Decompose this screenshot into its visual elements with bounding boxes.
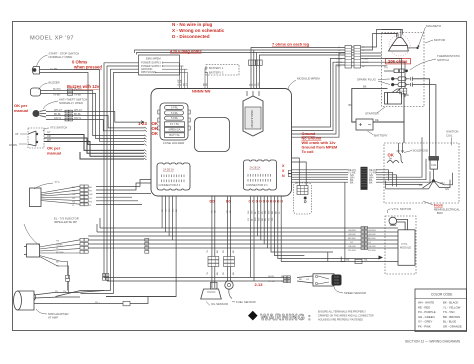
speed sensor SS1: [297, 274, 334, 286]
start-stop switch S1: [32, 67, 39, 75]
svg-text:MODULE MPEM: MODULE MPEM: [297, 77, 320, 81]
red X marks on MPEM right: [282, 164, 285, 178]
red 206 ohms note: [386, 59, 411, 64]
red ground notes: [302, 132, 338, 154]
svg-text:WH-GY: WH-GY: [74, 109, 83, 112]
svg-text:BL: BL: [255, 211, 257, 214]
magneto bundle to connector: [352, 30, 406, 72]
svg-text:RE: RE: [272, 210, 274, 214]
svg-text:DOWN: DOWN: [9, 144, 17, 147]
svg-text:WH: WH: [47, 139, 51, 142]
magneto M1: [388, 35, 410, 56]
svg-text:when pressed: when pressed: [73, 65, 102, 70]
svg-text:SPEED SENSOR: SPEED SENSOR: [344, 291, 366, 295]
svg-text:BK: BK: [233, 272, 235, 275]
svg-text:GY: GY: [89, 198, 93, 200]
svg-text:GR - GREEN: GR - GREEN: [418, 315, 435, 319]
label ignition coil: [446, 130, 458, 138]
svg-text:GN: GN: [258, 217, 260, 221]
svg-text:BK: BK: [338, 66, 341, 68]
svg-text:BK - BLACK: BK - BLACK: [443, 301, 459, 305]
leader spark plugs: [378, 79, 390, 85]
cable battery to starter: [352, 88, 404, 143]
solenoid feed wires: [402, 71, 406, 98]
svg-text:OIL SENSOR: OIL SENSOR: [211, 302, 228, 306]
svg-text:BK: BK: [350, 180, 354, 184]
svg-text:BK: BK: [349, 103, 353, 107]
svg-text:CRIMPED ON THE WIRES AND ALL C: CRIMPED ON THE WIRES AND ALL CONNECTOR: [318, 315, 374, 318]
svg-text:VTS SWITCH: VTS SWITCH: [50, 126, 67, 130]
svg-text:PU: PU: [55, 291, 58, 293]
spark plug P2: [391, 82, 412, 86]
svg-text:GY: GY: [306, 279, 310, 281]
rotated labels under connector 1: [248, 210, 281, 214]
warning paragraph: [318, 311, 374, 322]
label start-stop switch: [49, 52, 80, 60]
label front electrical box: [434, 204, 460, 215]
starter MOT: [385, 89, 402, 104]
svg-text:PU: PU: [262, 211, 264, 214]
label anti-theft switch: [59, 98, 87, 106]
svg-text:YL-RE: YL-RE: [178, 79, 180, 86]
svg-text:PU: PU: [56, 266, 59, 268]
svg-text:PU-TN: PU-TN: [74, 88, 82, 91]
front box connector dashed: [294, 183, 312, 214]
svg-text:TN: TN: [56, 241, 59, 243]
inline connector pair buzzer: [68, 89, 73, 95]
oil level sensor (funnel): [201, 282, 222, 299]
svg-text:YL: YL: [279, 211, 281, 214]
svg-text:COIL: COIL: [446, 133, 453, 137]
svg-text:BK-BL: BK-BL: [54, 113, 62, 116]
svg-text:OR-GN: OR-GN: [348, 246, 356, 248]
svg-text:TN: TN: [72, 201, 75, 203]
svg-text:BK-RE: BK-RE: [336, 62, 343, 64]
svg-text:PU: PU: [89, 191, 92, 193]
connector column J3 pairs: [80, 185, 88, 206]
svg-text:“X” L: “X” L: [54, 180, 61, 184]
anti-theft wires: [46, 112, 145, 131]
svg-text:BK: BK: [419, 183, 423, 187]
row end hooks: [144, 127, 147, 160]
connector #1 block J1: [244, 160, 277, 190]
red OK per manual 1: [14, 103, 28, 113]
svg-text:WH: WH: [255, 217, 257, 221]
svg-text:FUEL SENSOR: FUEL SENSOR: [236, 300, 256, 304]
svg-text:BL - BLUE: BL - BLUE: [443, 320, 456, 324]
svg-text:GY: GY: [350, 242, 354, 244]
extra harness row 2: [80, 152, 144, 159]
oil sender columns: [212, 197, 231, 257]
inline connector near front box: [288, 171, 291, 177]
svg-text:WH: WH: [269, 210, 271, 214]
wires J4 lower to adapter row: [68, 281, 69, 293]
svg-text:GN-YL: GN-YL: [54, 117, 62, 120]
svg-text:BK: BK: [217, 250, 219, 253]
svg-text:NNNN NN: NNNN NN: [192, 88, 211, 93]
svg-text:PK: PK: [223, 250, 225, 253]
left vertical risers from EMS box: [97, 63, 139, 294]
svg-text:GN: GN: [72, 194, 76, 196]
thermostatic switch TS1: [384, 69, 408, 73]
svg-text:5#: 5#: [389, 158, 392, 161]
MPEM module U1: [151, 89, 292, 197]
wire to magneto apex: [382, 30, 401, 37]
svg-text:BATT 5A: BATT 5A: [169, 133, 180, 137]
inline connectors anti-theft: [65, 110, 72, 121]
svg-text:OR: OR: [265, 210, 267, 214]
anti-theft key switch S2: [33, 110, 46, 117]
svg-text:MOTOR: MOTOR: [434, 38, 446, 42]
svg-text:GN: GN: [89, 194, 93, 196]
leader thermostatic: [410, 59, 436, 70]
second bundle from MPEM right: [292, 53, 346, 137]
svg-text:BK-WH: BK-WH: [348, 238, 356, 240]
EMS power supply box: [139, 55, 180, 75]
svg-text:BK-BL: BK-BL: [74, 113, 82, 116]
svg-text:MODULE: MODULE: [400, 246, 411, 250]
svg-text:BK-WH: BK-WH: [368, 238, 376, 240]
svg-text:SOLENOID: SOLENOID: [413, 149, 429, 153]
oil level sensor connector J4: [24, 244, 40, 257]
svg-text:TN: TN: [207, 272, 209, 275]
black arrow into module: [379, 256, 384, 260]
svg-text:manual: manual: [47, 151, 61, 156]
label thermostatic switch: [437, 54, 461, 62]
solenoid K1: [387, 143, 403, 163]
fuse F5: [165, 127, 185, 132]
svg-text:GY 2B: GY 2B: [268, 281, 275, 283]
fuse F4: [165, 122, 185, 127]
svg-text:HOUSINGS ARE PROPERLY FASTENED: HOUSINGS ARE PROPERLY FASTENED: [318, 319, 363, 322]
svg-text:GN: GN: [248, 210, 250, 214]
inline connector grid oil: [208, 257, 234, 267]
svg-text:D - Disconnected: D - Disconnected: [172, 34, 210, 39]
label oil fuel injection: [54, 217, 79, 225]
svg-text:TN-BK: TN-BK: [74, 93, 82, 96]
svg-text:X: X: [282, 164, 285, 168]
svg-text:YL - YELLOW: YL - YELLOW: [443, 305, 461, 309]
svg-text:YL-BK: YL-BK: [336, 58, 343, 60]
svg-text:BATTERY 2: BATTERY 2: [209, 70, 224, 74]
power row bracket stubs: [155, 63, 188, 89]
labels speed wires: [268, 275, 310, 283]
svg-text:GN: GN: [258, 82, 260, 86]
svg-text:V.T.S.: V.T.S.: [401, 242, 408, 246]
fuse F1: [165, 106, 184, 110]
svg-text:GN-GN: GN-GN: [368, 234, 376, 236]
svg-text:REGULATOR: REGULATOR: [250, 110, 254, 127]
svg-text:X: X: [282, 169, 285, 173]
wire row labels right of step: [348, 230, 376, 252]
svg-text:RE: RE: [262, 217, 264, 221]
svg-text:4 to 6 diag ohms: 4 to 6 diag ohms: [170, 49, 202, 54]
svg-text:BATTERY 1: BATTERY 1: [209, 66, 224, 70]
svg-text:GY: GY: [248, 217, 250, 221]
svg-text:GN-YL: GN-YL: [74, 117, 82, 120]
label adapter: [48, 312, 69, 320]
svg-text:BK: BK: [89, 187, 92, 189]
harness wires: [292, 137, 431, 187]
svg-text:PU: PU: [72, 191, 75, 193]
fuse F2: [165, 111, 184, 115]
svg-text:7 ohms on each leg: 7 ohms on each leg: [272, 41, 310, 46]
lower rows RE wire: [328, 182, 398, 261]
wire buzzer A: [41, 91, 145, 136]
rotated labels under connector 1 row2: [248, 217, 274, 221]
VTS module: [398, 230, 415, 265]
battery box leads: [205, 68, 208, 89]
svg-text:FUSE HOLDER: FUSE HOLDER: [163, 141, 185, 145]
svg-text:RE: RE: [206, 82, 208, 86]
speed sensor black connector: [332, 275, 342, 286]
svg-text:RE: RE: [203, 82, 205, 86]
left riser joins: [56, 291, 177, 297]
svg-text:BK: BK: [363, 85, 367, 89]
dot on magneto output: [416, 47, 418, 49]
label magneto: [426, 24, 442, 28]
svg-text:BR - BROWN: BR - BROWN: [443, 315, 460, 319]
svg-text:TN: TN: [207, 250, 209, 253]
red OK per manual 2: [47, 146, 61, 156]
connector #2 block J2: [157, 163, 190, 190]
svg-text:GN: GN: [252, 210, 254, 214]
svg-text:Buzzes with 12v: Buzzes with 12v: [67, 84, 100, 89]
top bundle verticals from left: [135, 48, 346, 90]
VTS switch contacts: [28, 131, 38, 146]
svg-text:OR: OR: [272, 217, 274, 221]
fan wires from J4: [40, 240, 81, 253]
svg-text:OK: OK: [152, 131, 159, 136]
ignition coil: [429, 157, 439, 170]
red note 0 ohms: [72, 60, 102, 70]
svg-text:WH-GY: WH-GY: [54, 109, 63, 112]
5/8 adapter cylinder: [14, 291, 36, 310]
front box pins: [297, 186, 308, 203]
rotated labels oil fuel columns: [212, 210, 232, 213]
svg-text:TN - TAN: TN - TAN: [443, 310, 455, 314]
legend red notes: [172, 22, 225, 39]
fuel sender F: [225, 281, 233, 299]
svg-text:GY: GY: [258, 210, 260, 214]
svg-text:To coil: To coil: [302, 150, 314, 154]
svg-text:BK: BK: [56, 261, 59, 263]
fuse F3: [165, 116, 184, 120]
svg-text:5 FRL: 5 FRL: [171, 111, 179, 115]
svg-text:YL: YL: [72, 205, 75, 207]
svg-text:MAGNETO: MAGNETO: [426, 24, 442, 28]
svg-text:manual: manual: [14, 108, 28, 113]
svg-text:Ground: Ground: [302, 132, 316, 136]
plug leads to coil: [412, 79, 436, 157]
svg-text:COLOR CODE: COLOR CODE: [431, 293, 452, 297]
svg-text:5 FRL: 5 FRL: [171, 116, 179, 120]
svg-text:GY: GY: [165, 208, 167, 212]
rotated labels above MPEM: [178, 79, 260, 86]
svg-text:RE: RE: [364, 259, 368, 262]
svg-text:WH: WH: [172, 208, 174, 212]
VTS switch S3 dashed: [28, 128, 44, 148]
battery diag dashed box: [206, 65, 239, 76]
inline connector column VTS rows: [361, 227, 368, 250]
svg-text:TN: TN: [89, 201, 92, 203]
fuse F6: [165, 133, 185, 138]
VTS dashed enclosure: [385, 216, 416, 274]
connector column mid rows: [145, 238, 149, 253]
svg-text:MODEL XP '97: MODEL XP '97: [30, 36, 74, 42]
inline connector to solenoid: [400, 88, 407, 94]
svg-text:PK: PK: [223, 272, 225, 275]
svg-text:NORMALLY OPEN: NORMALLY OPEN: [49, 55, 73, 59]
connector #1 pins: [248, 174, 271, 182]
svg-text:BK: BK: [233, 250, 235, 253]
svg-text:GN-WH: GN-WH: [368, 230, 376, 232]
svg-text:F1 7.5A: F1 7.5A: [170, 122, 179, 126]
labels above oil connectors: [207, 250, 235, 275]
svg-text:YL-BK: YL-BK: [181, 79, 183, 86]
speed sensor connectors: [284, 276, 291, 283]
svg-text:PU +: PU +: [95, 302, 101, 304]
svg-text:GY: GY: [47, 131, 51, 134]
leader magneto: [418, 27, 425, 46]
svg-text:BL: BL: [252, 218, 254, 221]
svg-text:IMPELLER 5E MP: IMPELLER 5E MP: [54, 220, 77, 224]
svg-text:PU - PURPLE: PU - PURPLE: [418, 310, 436, 314]
coil wire fan: [423, 169, 446, 189]
svg-text:BATTERY: BATTERY: [374, 134, 388, 138]
harness wires left labels: [348, 168, 356, 185]
svg-text:TN-BK: TN-BK: [56, 244, 63, 246]
svg-text:TN-BK: TN-BK: [53, 93, 61, 96]
svg-text:BK: BK: [217, 272, 219, 275]
svg-text:PU: PU: [169, 209, 171, 212]
svg-text:SPARK PLUG: SPARK PLUG: [357, 78, 377, 82]
svg-text:NORMALLY OPEN: NORMALLY OPEN: [59, 101, 83, 105]
connector column J4: [80, 238, 88, 253]
svg-text:YL: YL: [89, 205, 92, 207]
svg-text:GY - GREY: GY - GREY: [418, 320, 433, 324]
svg-text:AT AMP: AT AMP: [48, 316, 58, 320]
svg-text:BK-RE: BK-RE: [362, 62, 369, 64]
svg-text:GY: GY: [281, 281, 285, 283]
red OK notes on fuses: [138, 121, 159, 136]
svg-text:SECTION 12 — WIRING DIAGRAMS: SECTION 12 — WIRING DIAGRAMS: [405, 340, 461, 344]
svg-text:2A 2B 2A: 2A 2B 2A: [250, 166, 261, 170]
inline connectors on risers: [102, 274, 108, 281]
svg-text:RE: RE: [375, 118, 379, 122]
wires into front box connector: [292, 158, 307, 186]
svg-text:UP: UP: [15, 133, 19, 136]
inline connector RE wire: [355, 259, 362, 263]
svg-text:N - No wire in plug: N - No wire in plug: [172, 22, 213, 27]
svg-text:PU-TN: PU-TN: [53, 88, 61, 91]
svg-text:RE: RE: [405, 93, 409, 97]
svg-text:TN: TN: [269, 218, 271, 221]
svg-text:BK: BK: [369, 180, 373, 184]
J4 lower wires: [40, 256, 69, 279]
handlebar connector J3: [30, 188, 42, 207]
svg-text:OR-GN: OR-GN: [368, 246, 376, 248]
svg-text:PK - PINK: PK - PINK: [418, 325, 431, 329]
oil columns continue: [212, 267, 231, 289]
warning diamond: [248, 311, 258, 321]
svg-text:WARNING :: WARNING :: [261, 312, 312, 322]
bundle labels near connector: [336, 47, 369, 68]
svg-text:2A 2B: 2A 2B: [268, 275, 274, 278]
svg-text:5 FRL: 5 FRL: [171, 106, 179, 110]
svg-text:PU-WH: PU-WH: [348, 250, 356, 252]
svg-text:YL RE: YL RE: [50, 67, 58, 71]
svg-text:RE: RE: [346, 259, 350, 262]
main harness connector (black): [360, 167, 368, 190]
svg-text:BK: BK: [299, 279, 302, 281]
svg-text:OR: OR: [47, 135, 51, 138]
adapter wires: [34, 291, 148, 304]
svg-text:MPEM 5A: MPEM 5A: [169, 128, 181, 132]
VTS motor M2: [389, 217, 408, 230]
svg-text:YL-BK: YL-BK: [362, 58, 369, 60]
spark plug P1: [391, 77, 412, 81]
wire YL from S1: [40, 70, 145, 142]
rotated labels under connector 2: [162, 208, 178, 212]
magneto connector column: [345, 46, 361, 69]
svg-text:OR - ORANGE: OR - ORANGE: [443, 325, 462, 329]
fuse holder block: [158, 103, 190, 140]
svg-text:SWITCH: SWITCH: [437, 58, 449, 62]
svg-text:GY: GY: [368, 242, 372, 244]
svg-text:2A 2B 2A: 2A 2B 2A: [163, 168, 174, 172]
buzzer BZ1: [31, 88, 41, 96]
svg-text:No Ground: No Ground: [302, 137, 323, 141]
svg-text:Will crank with 12v: Will crank with 12v: [302, 141, 337, 145]
fan wires from J3: [41, 186, 80, 204]
svg-text:WH - WHITE: WH - WHITE: [418, 301, 434, 305]
svg-text:STARTER: STARTER: [365, 112, 380, 116]
svg-text:GN-GN: GN-GN: [348, 234, 356, 236]
svg-text:TN: TN: [63, 291, 66, 293]
wire buzzer B: [41, 94, 146, 139]
svg-text:BUZZER: BUZZER: [49, 81, 60, 85]
battery BT1: [356, 119, 373, 130]
svg-text:X - Wrong on schematic: X - Wrong on schematic: [172, 28, 225, 33]
VTS wires stepping: [44, 135, 144, 157]
svg-text:WF WF: WF WF: [397, 151, 405, 153]
extra harness row: [88, 140, 144, 145]
svg-text:2-13: 2-13: [255, 282, 264, 287]
connector1 wires stepping right: [251, 197, 379, 282]
svg-text:BK: BK: [275, 211, 277, 214]
svg-text:N: N: [282, 174, 285, 178]
svg-text:EMS MPEM: EMS MPEM: [146, 56, 161, 60]
svg-text:COIL: COIL: [431, 164, 437, 167]
svg-text:BOX: BOX: [437, 211, 443, 215]
connector #2 down wires: [106, 197, 176, 297]
long rows to VTS module: [88, 228, 398, 248]
connector #2 pins: [162, 175, 185, 183]
svg-text:CONNECTOR # 2: CONNECTOR # 2: [159, 183, 181, 187]
speed sensor rows: [104, 278, 290, 282]
inline connector J4 lower: [66, 275, 70, 281]
wire RE from S1: [40, 73, 145, 145]
svg-text:PU: PU: [265, 218, 267, 221]
red D marks under MPEM bottom: [210, 200, 284, 204]
inline connector 4way above MPEM: [249, 60, 263, 65]
svg-text:GY: GY: [72, 198, 76, 200]
svg-text:GN-WH: GN-WH: [348, 230, 356, 232]
motor dashed enclosure: [382, 33, 425, 107]
regulator U2: [243, 91, 263, 136]
svg-text:WH: WH: [440, 181, 444, 185]
